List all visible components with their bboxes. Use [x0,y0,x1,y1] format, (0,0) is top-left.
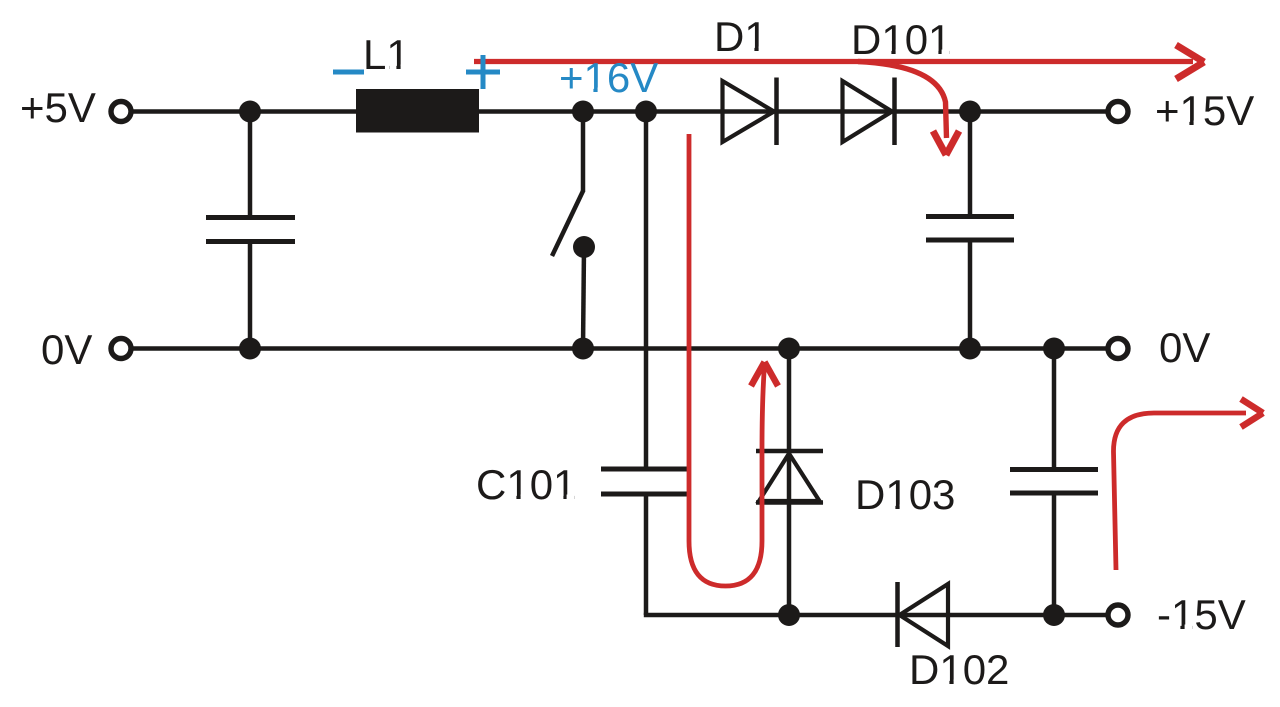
wire bottom negative rail [644,613,1106,618]
red current arrow middle U-loop [689,134,778,586]
capacitor left (input) plates [206,218,295,242]
svg-text:+16V: +16V [559,54,658,101]
wire 0V middle rail [133,346,1106,351]
red current arrow branch down at D101 [858,62,959,156]
junction node switch middle contact [573,236,595,258]
red current arrow bottom right (to -15V) [1113,399,1263,570]
junction node 0V at switch [572,338,594,360]
wire +5V top rail [133,109,1106,114]
svg-text:D102: D102 [909,646,1009,693]
wire C101 branch lower [644,494,649,615]
wire bottom right capacitor branch lower [1052,493,1057,615]
wire left capacitor branch lower [248,241,253,349]
blue polarity plus mark [466,55,500,89]
diode D102 [898,582,949,647]
terminal +15V [1108,102,1128,122]
svg-text:C101: C101 [476,461,576,508]
wire left capacitor branch upper [248,112,253,219]
diode D1 [723,78,777,146]
junction node bottom rail at D103 [778,604,800,626]
capacitor C101 plates [601,469,689,494]
svg-text:D103: D103 [855,471,955,518]
terminal 0V right [1108,339,1128,359]
svg-text:D1: D1 [714,13,768,60]
terminal -15V [1108,605,1128,625]
terminal 0V left [111,339,131,359]
red current arrow top (to +15V) [474,45,1204,79]
svg-text:D101: D101 [851,16,951,63]
junction node +15V rail at cap [959,101,981,123]
blue polarity minus mark [333,70,364,75]
svg-text:+5V: +5V [20,84,96,131]
wire C101 branch upper [644,112,649,470]
svg-text:0V: 0V [41,326,92,373]
wire switch upper segment [581,112,586,193]
wire bottom right capacitor branch upper [1052,349,1057,471]
junction node bottom rail at cap [1043,604,1065,626]
junction node +16V at C101 [635,101,657,123]
junction node 0V at input cap [239,338,261,360]
junction node 0V at D103 [778,338,800,360]
junction node on +5V rail at switch [572,101,594,123]
terminal +5V [111,102,131,122]
capacitor bottom right (-15V) plates [1010,470,1098,494]
diode D103 [756,451,823,503]
wire switch lower segment [583,247,584,349]
junction node 0V at bottom right cap [1043,338,1065,360]
junction node 0V at top right cap [959,338,981,360]
svg-text:0V: 0V [1159,324,1210,371]
wire top right capacitor branch upper [968,112,973,218]
svg-text:L1: L1 [363,31,410,78]
wire top right capacitor branch lower [968,240,973,349]
wire switch blade diagonal [552,191,583,256]
svg-text:-15V: -15V [1157,591,1246,638]
svg-text:+15V: +15V [1155,87,1254,134]
capacitor top right (+15V) plates [926,217,1014,241]
wire D103 branch [787,349,792,616]
diode D101 [843,78,895,146]
inductor L1 [356,89,479,133]
junction node on +5V rail at input cap [239,101,261,123]
